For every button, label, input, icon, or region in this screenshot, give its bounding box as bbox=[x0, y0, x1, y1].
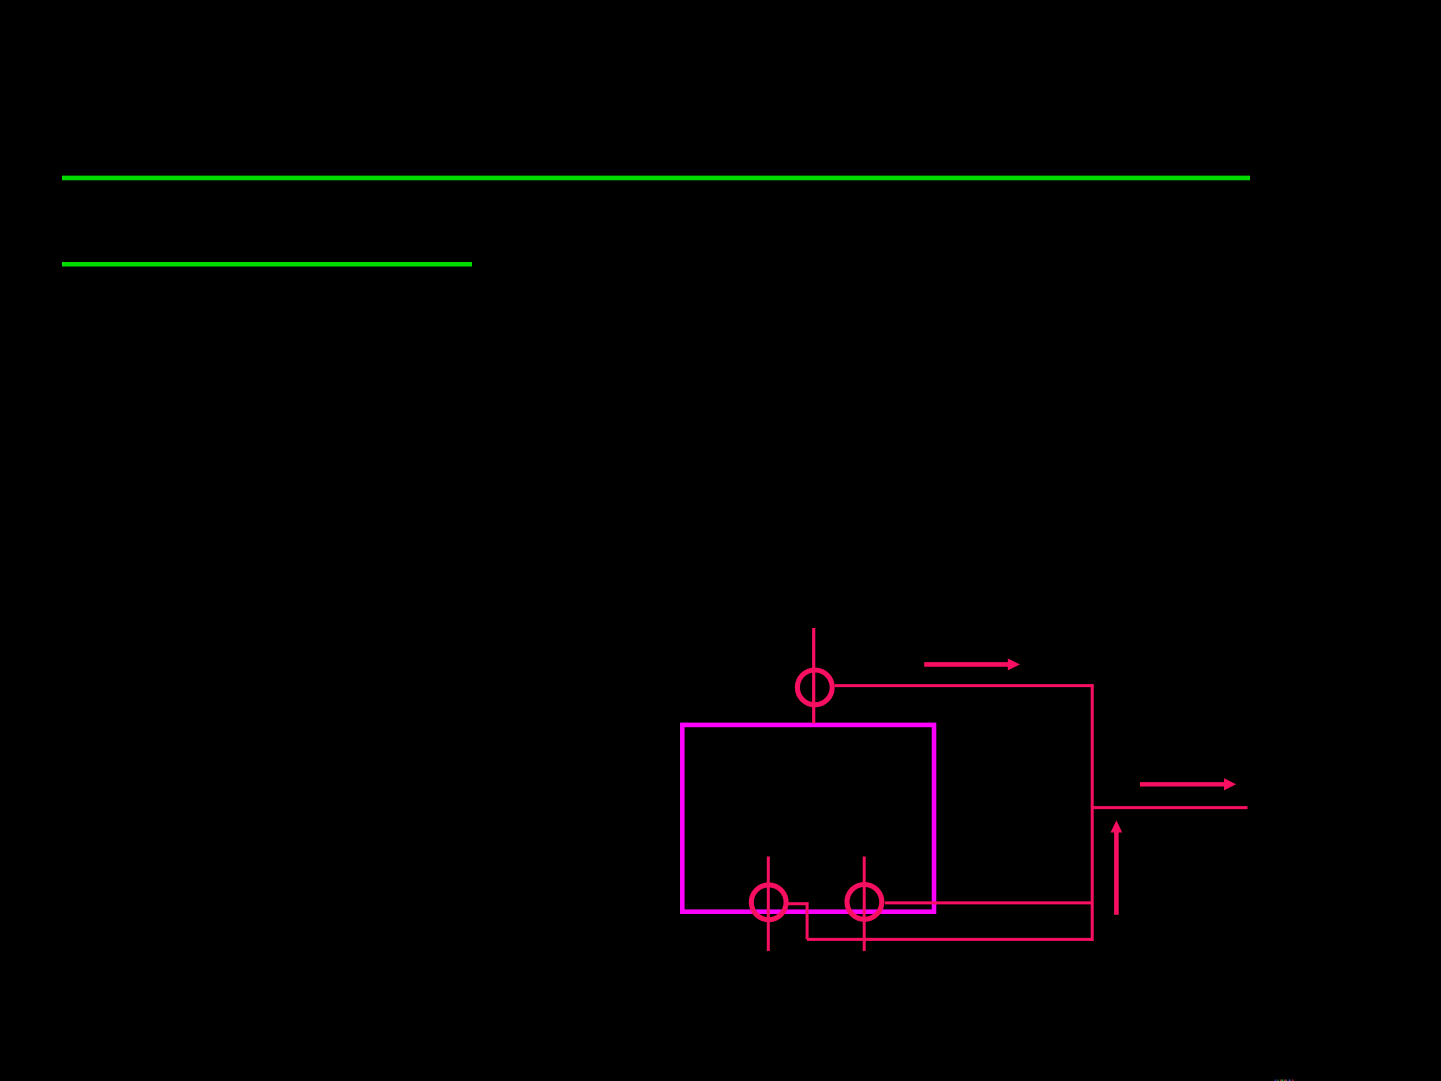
title underline bar 1 (green) bbox=[62, 176, 1250, 181]
wire: right bottom port to right bus bbox=[885, 901, 1092, 904]
port circle P3 (bottom right) bbox=[847, 885, 882, 920]
wire: riser under left bottom port bbox=[806, 902, 809, 939]
flow arrow A1 (top, pointing right) bbox=[924, 658, 1020, 670]
wire: left bottom port stub bbox=[788, 902, 809, 905]
wire: top port to right bus bbox=[835, 684, 1094, 687]
wire: right vertical bus bbox=[1091, 684, 1094, 941]
wire: bottom return run bbox=[807, 938, 1094, 941]
title underline bar 2 (green) bbox=[62, 262, 472, 267]
wire: output stub to the right bbox=[1092, 806, 1248, 809]
clipped footer text specks at bottom edge bbox=[1275, 1080, 1294, 1081]
port circle P1 (top) bbox=[797, 670, 832, 705]
block: vessel outline (magenta rectangle) bbox=[682, 725, 934, 912]
port circle P2 (bottom left) bbox=[751, 885, 786, 920]
wire: stem through top port bbox=[812, 628, 815, 724]
wire: stem through right bottom port bbox=[863, 857, 866, 952]
wire: stem through left bottom port bbox=[767, 857, 770, 952]
flow arrow A3 (recycle, pointing up) bbox=[1111, 820, 1123, 914]
flow arrow A2 (right, pointing right) bbox=[1140, 778, 1236, 790]
